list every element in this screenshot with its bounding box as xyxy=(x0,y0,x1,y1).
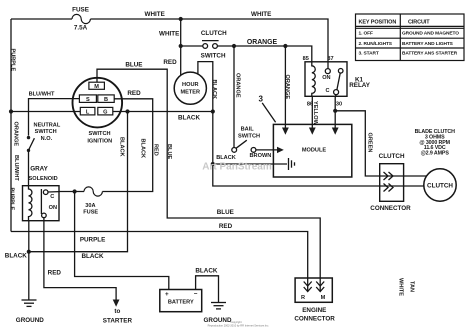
svg-text:3: 3 xyxy=(258,95,263,104)
relay coil xyxy=(312,63,315,96)
wire black to module ground xyxy=(213,163,287,165)
svg-text:RED: RED xyxy=(163,59,177,66)
wire battery positive xyxy=(75,192,169,290)
svg-text:BLACK: BLACK xyxy=(5,253,27,260)
svg-text:B: B xyxy=(104,97,108,103)
svg-text:ENGINE: ENGINE xyxy=(302,307,326,314)
wire neutral switch to solenoid coil xyxy=(28,150,30,186)
svg-text:87: 87 xyxy=(327,56,333,62)
svg-text:FUSE: FUSE xyxy=(83,209,98,215)
svg-text:CLUTCH: CLUTCH xyxy=(427,183,453,190)
svg-text:C: C xyxy=(325,88,329,94)
svg-text:+: + xyxy=(165,291,169,298)
svg-text:WHITE: WHITE xyxy=(251,11,271,18)
svg-text:STARTER: STARTER xyxy=(103,317,133,324)
svg-text:PURPLE: PURPLE xyxy=(9,188,15,211)
svg-text:GREEN: GREEN xyxy=(366,133,372,153)
svg-text:SOLENOID: SOLENOID xyxy=(28,176,57,182)
svg-text:IGNITION: IGNITION xyxy=(87,138,112,144)
svg-text:to: to xyxy=(114,308,120,315)
svg-text:CIRCUIT: CIRCUIT xyxy=(408,20,430,26)
svg-text:BLACK: BLACK xyxy=(119,137,125,157)
svg-text:HOUR: HOUR xyxy=(182,82,198,88)
ground module internal xyxy=(289,158,295,170)
relay pin 30 terminal xyxy=(334,90,339,95)
svg-text:M: M xyxy=(94,84,99,90)
wire blu/wht S terminal xyxy=(29,99,80,136)
ignition terminal S xyxy=(79,95,96,103)
svg-text:GROUND: GROUND xyxy=(204,317,232,324)
svg-text:G: G xyxy=(103,110,107,116)
solenoid coil xyxy=(29,186,32,221)
svg-text:30: 30 xyxy=(336,102,342,108)
solenoid bar xyxy=(40,189,42,214)
svg-text:METER: METER xyxy=(181,90,201,96)
svg-text:RED: RED xyxy=(152,144,158,156)
key position table xyxy=(356,14,465,61)
svg-text:BLUE: BLUE xyxy=(217,209,234,216)
module U1 box xyxy=(273,124,351,177)
battery B1 box xyxy=(160,290,202,312)
svg-text:BLACK: BLACK xyxy=(195,267,217,274)
neutral switch N.O. xyxy=(27,136,35,152)
engine connector box xyxy=(295,278,332,302)
svg-text:2. RUN/LIGHTS: 2. RUN/LIGHTS xyxy=(359,41,393,47)
wire purple left vertical xyxy=(10,19,12,232)
ground left xyxy=(22,300,37,306)
svg-text:SWITCH: SWITCH xyxy=(35,129,57,135)
svg-text:CONNECTOR: CONNECTOR xyxy=(294,316,335,323)
svg-text:BLU/WHT: BLU/WHT xyxy=(13,155,19,181)
svg-text:YELLOW: YELLOW xyxy=(312,101,318,126)
svg-text:S: S xyxy=(86,97,90,103)
wire white top middle xyxy=(90,18,180,20)
wire clutch switch left xyxy=(181,45,203,47)
fuse 30A xyxy=(84,187,102,196)
connector chevrons row1 xyxy=(384,172,394,180)
solenoid ON terminal xyxy=(42,213,47,218)
ignition terminal G xyxy=(98,107,113,115)
node green junction xyxy=(333,109,337,113)
node battery feed junction xyxy=(73,189,77,193)
svg-text:7.5A: 7.5A xyxy=(74,25,88,32)
svg-text:CLUTCH: CLUTCH xyxy=(379,153,405,160)
node module ground tap xyxy=(211,162,215,166)
svg-text:@2.9 AMPS: @2.9 AMPS xyxy=(421,150,450,156)
node L-terminal junction xyxy=(9,109,13,113)
ignition terminal B xyxy=(98,95,114,103)
wire yellow relay 86 to module pin2 xyxy=(311,96,313,128)
engine connector chevrons R xyxy=(304,282,312,292)
svg-text:CLUTCH: CLUTCH xyxy=(201,30,227,37)
bail switch S3 xyxy=(232,140,256,152)
relay K1 box xyxy=(305,62,347,97)
connector chevrons row2 xyxy=(384,184,394,192)
svg-text:BLUE: BLUE xyxy=(166,144,172,159)
wire orange down to bail switch xyxy=(233,46,235,148)
svg-text:Reproduction 2002-2010 by RR I: Reproduction 2002-2010 by RR Internet Se… xyxy=(208,323,270,327)
svg-text:86: 86 xyxy=(307,102,313,108)
wire white drop to hour meter xyxy=(180,19,182,75)
svg-text:C: C xyxy=(50,194,54,200)
relay contact 87a xyxy=(338,69,343,74)
svg-text:BLACK: BLACK xyxy=(178,114,200,121)
wire black hour meter to clutch connector xyxy=(213,112,424,187)
hour meter U2 xyxy=(174,72,206,104)
wire white top left segment xyxy=(11,18,72,20)
svg-text:BATTERY: BATTERY xyxy=(168,300,194,306)
svg-text:WHITE: WHITE xyxy=(145,11,165,18)
wire solenoid C to fuse xyxy=(59,191,84,193)
svg-text:SWITCH: SWITCH xyxy=(88,131,110,137)
svg-text:GROUND AND MAGNETO: GROUND AND MAGNETO xyxy=(402,31,459,37)
svg-text:BAIL: BAIL xyxy=(241,127,255,133)
wire orange clutch switch to relay 85 xyxy=(217,46,311,63)
svg-text:BATTERY AND LIGHTS: BATTERY AND LIGHTS xyxy=(402,41,454,47)
ignition switch circle xyxy=(73,78,123,128)
relay blade xyxy=(337,73,340,90)
clutch switch S2 xyxy=(202,41,219,49)
svg-text:BLACK: BLACK xyxy=(81,253,103,260)
svg-text:1. OFF: 1. OFF xyxy=(359,31,374,37)
svg-text:PURPLE: PURPLE xyxy=(10,49,16,72)
svg-text:ON: ON xyxy=(322,75,330,81)
svg-text:Art PanStream: Art PanStream xyxy=(202,162,272,173)
engine connector chevrons M xyxy=(316,282,324,292)
svg-text:TAN: TAN xyxy=(409,281,415,292)
callout 3 leader line xyxy=(262,103,275,122)
svg-text:30A: 30A xyxy=(85,203,95,209)
clutch coil xyxy=(424,169,456,201)
wire battery negative black xyxy=(196,276,219,302)
svg-text:MODULE: MODULE xyxy=(302,148,327,154)
solenoid C terminal xyxy=(43,190,48,195)
svg-text:BLACK: BLACK xyxy=(216,155,236,161)
svg-text:FUSE: FUSE xyxy=(72,7,89,14)
node G-black junction xyxy=(125,109,129,113)
node clutch switch junction xyxy=(179,44,183,48)
ground battery xyxy=(211,303,226,309)
wire hour meter right black xyxy=(198,62,213,112)
clutch connector box xyxy=(380,164,404,202)
svg-text:ORANGE: ORANGE xyxy=(247,39,278,46)
svg-text:SWITCH: SWITCH xyxy=(238,133,260,139)
svg-text:KEY POSITION: KEY POSITION xyxy=(359,20,397,26)
svg-text:M: M xyxy=(321,295,326,301)
solenoid box xyxy=(23,186,60,221)
svg-text:NEUTRAL: NEUTRAL xyxy=(34,122,61,128)
node hourmeter-black junction xyxy=(211,109,215,113)
wire black G terminal line xyxy=(113,111,213,113)
wire brown bail to module xyxy=(256,149,278,151)
wire solenoid coil bottom to ground xyxy=(28,221,30,300)
svg-text:RELAY: RELAY xyxy=(349,82,371,89)
node bail orange junction xyxy=(232,44,236,48)
svg-text:BLUE: BLUE xyxy=(125,61,142,68)
wire L terminal to left wire xyxy=(11,111,80,113)
svg-text:BATTERY ANS STARTER: BATTERY ANS STARTER xyxy=(402,51,458,57)
wire solenoid C out xyxy=(48,191,59,193)
svg-text:CONNECTOR: CONNECTOR xyxy=(370,205,411,212)
svg-text:BLACK: BLACK xyxy=(211,80,217,100)
svg-text:GRAY: GRAY xyxy=(30,166,48,173)
svg-text:85: 85 xyxy=(303,56,309,62)
svg-text:WHITE: WHITE xyxy=(397,278,403,296)
svg-text:ORANGE: ORANGE xyxy=(234,73,240,98)
svg-text:GROUND: GROUND xyxy=(16,317,44,324)
wire red from B terminal to 30A fuse xyxy=(102,99,152,192)
svg-text:−: − xyxy=(194,291,198,298)
svg-text:L: L xyxy=(86,110,90,116)
wire white top right to relay 87 xyxy=(181,19,328,69)
svg-text:PURPLE: PURPLE xyxy=(80,236,106,243)
svg-text:ORANGE: ORANGE xyxy=(13,122,19,147)
node white/hourmeter junction top xyxy=(179,17,183,21)
svg-text:BROWN: BROWN xyxy=(250,153,272,159)
wire orange down to module pin1 xyxy=(284,46,286,128)
node module orange junction xyxy=(283,44,287,48)
wire red to starter xyxy=(44,218,116,300)
wire green to clutch connector xyxy=(335,111,427,176)
svg-text:WHITE: WHITE xyxy=(159,31,179,38)
fuse 7.5A xyxy=(72,14,90,23)
svg-text:SWITCH: SWITCH xyxy=(201,52,226,59)
svg-text:BLACK: BLACK xyxy=(140,139,146,159)
wire black G down to ground bus xyxy=(29,112,128,252)
svg-text:ON: ON xyxy=(49,205,57,211)
ignition terminal L xyxy=(80,107,95,115)
svg-text:RED: RED xyxy=(219,223,233,230)
svg-text:3. START: 3. START xyxy=(359,51,379,57)
svg-text:N.O.: N.O. xyxy=(41,136,53,142)
svg-text:R: R xyxy=(301,295,305,301)
svg-text:BLU/WHT: BLU/WHT xyxy=(29,91,55,97)
svg-text:ORANGE: ORANGE xyxy=(284,75,290,100)
ignition terminal M xyxy=(89,82,105,89)
wire relay 30 down xyxy=(334,95,337,128)
svg-text:RED: RED xyxy=(48,270,62,277)
svg-text:RED: RED xyxy=(127,90,141,97)
node ground junction xyxy=(27,250,31,254)
wire red bottom long to engine connector R xyxy=(11,232,308,292)
wire blue from M terminal xyxy=(97,69,320,291)
relay pin 87 terminal xyxy=(325,69,330,74)
